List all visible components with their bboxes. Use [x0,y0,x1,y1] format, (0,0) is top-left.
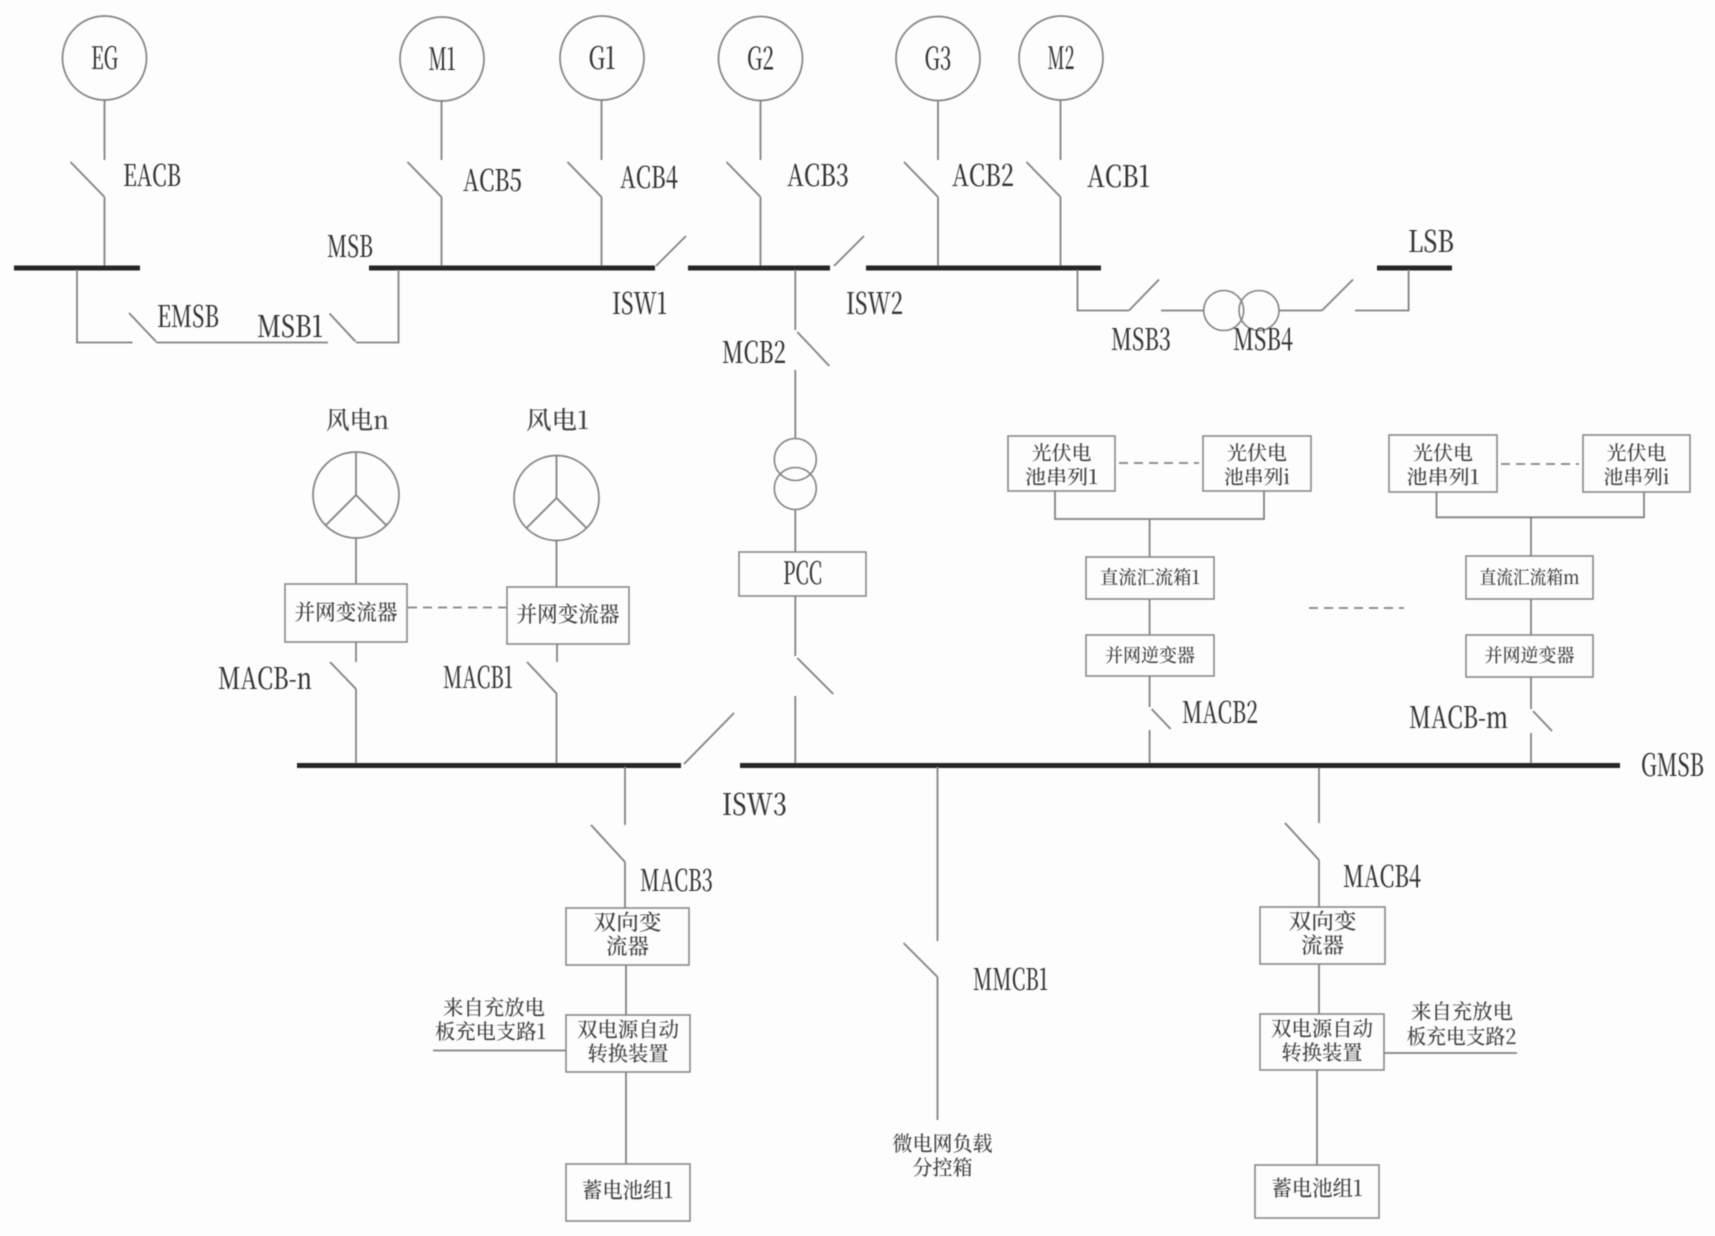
wire EG-bus drop and tie run [77,270,133,343]
label charge branch 2 line1 [1412,1001,1513,1021]
box PV string 1-i [1203,436,1311,491]
bus MSB segment 2 [688,266,830,271]
label PV string m-1 line1 [1414,443,1473,462]
breaker ACB2 blade [904,162,938,197]
box dual-supply ATS left [566,1015,690,1072]
label PV string 1-i line1 [1228,443,1287,462]
wire MACB2 to GMSB [1149,730,1151,764]
label MSB3 [1112,328,1170,351]
wire ACB2 upper [937,100,939,160]
generator EG label [92,46,118,70]
wire MSB3 to transformer [1161,310,1204,312]
breaker MCB1 blade [797,658,833,694]
label microgrid load line1 [893,1133,992,1153]
label MACB-n [219,667,311,690]
generator M2 label [1048,46,1074,69]
box PV string m-1 [1389,435,1497,492]
label microgrid load line2 [913,1157,972,1177]
label ISW1 [613,292,666,315]
wire MACB1 to GMSB [556,694,558,763]
label wind turbine 1 [527,408,588,431]
label MACB1 [444,666,512,689]
label PV string m-1 line2 [1407,467,1478,486]
bus GMSB left segment [297,763,681,768]
wire GMSB to MACB3 [624,767,626,825]
box bidirectional converter right [1260,907,1385,964]
wire GMSB to MACB4 [1318,768,1320,823]
label ACB2 [952,164,1013,187]
breaker MACB1 blade [527,662,557,694]
label charge branch 1 line2 [436,1021,546,1041]
label ACB3 [787,164,847,187]
wire inverter1 down [1149,676,1151,707]
label ISW3 [723,793,785,816]
wire ACB1 upper [1060,100,1062,160]
box PV string m-i [1583,435,1690,492]
label bidir converter left line2 [607,935,649,956]
breaker ACB5 blade [408,162,442,197]
wire PV group1 to combiner [1149,519,1151,557]
wire MACB-n to GMSB [355,689,357,763]
label ACB4 [620,166,677,189]
switch MSB1 blade [330,314,356,342]
breaker MMCB1 blade [904,943,938,977]
breaker ACB1 blade [1027,162,1061,197]
wire MCB2 from MSB [794,270,796,330]
generator G2 label [748,46,773,70]
wire ACB5 lower [441,197,443,268]
label PV string 1-1 line2 [1026,467,1097,486]
label GMSB [1642,753,1703,777]
wire MSB4 to LSB riser [1355,270,1409,311]
label MSB [328,235,372,258]
label MACB3 [641,869,712,892]
wire transformer to PCC box [794,510,796,553]
breaker ACB4 blade [568,162,602,197]
box DC combiner 1 [1086,557,1214,599]
switch ISW2 blade [834,236,864,266]
wire converter n down [355,642,357,662]
box PCC [739,552,866,596]
wire converter to ATS left [625,965,627,1015]
dashed link PV groups [1309,607,1404,609]
label ISW2 [847,292,902,315]
label wind turbine n [327,408,388,431]
breaker MACB3 blade [591,825,625,862]
wire charge branch 2 [1384,1052,1517,1054]
wire GMSB to MMCB1 [937,767,939,941]
wire charge branch 1 [433,1050,566,1052]
bus LSB busbar [1377,266,1452,271]
wire PV group m collector [1437,492,1645,517]
generator G1 label [590,46,615,70]
wire converter to ATS right [1318,964,1320,1014]
label MMCB1 [974,968,1047,991]
label battery bank right [1272,1177,1361,1197]
label MSB1 [258,315,322,338]
bus EG emergency busbar [14,266,140,271]
generator M2 circle [1019,16,1103,100]
wire ACB3 lower [760,197,762,268]
box grid inverter m [1466,635,1593,677]
wind turbine n rotor spokes [326,452,387,525]
bus MSB segment 3 [866,266,1101,271]
label bidir converter right line1 [1289,910,1356,931]
label PV string m-i line2 [1604,467,1669,486]
breaker MCB2 blade [797,332,829,366]
label MCB2 [723,341,785,364]
switch ISW1 blade [656,236,686,266]
bus GMSB right segment [740,763,1620,768]
label ACB5 [463,169,521,192]
box battery bank right [1255,1165,1379,1218]
wire ACB2 lower [937,197,939,268]
wind turbine 1 circle [514,456,599,541]
wire MACB-m to GMSB [1530,733,1532,764]
box dual-supply ATS right [1260,1014,1384,1070]
wire MACB3 to converter [624,862,626,908]
label DC combiner 1 [1101,568,1199,586]
label PV string m-i line1 [1607,443,1666,462]
label EMSB [158,305,218,328]
transformer T1 upper winding [774,439,816,481]
label PCC [784,561,821,585]
wire inverter m down [1530,677,1532,709]
label PV string 1-i line2 [1225,467,1290,486]
breaker EACB blade [71,162,105,197]
box grid converter n [285,584,407,642]
wire wind 1 to converter [556,541,558,588]
label ATS left line2 [588,1043,667,1063]
breaker MACB2 blade [1152,709,1171,729]
wire tie run to MSB riser [356,270,399,343]
wire ATS left to battery [625,1072,627,1164]
transformer T2 left winding [1204,291,1244,331]
label charge branch 1 line1 [444,997,545,1017]
wire PCC box down [794,596,796,656]
wire EACB lower [104,197,106,268]
generator M1 label [429,47,455,70]
wire PV group1 collector [1055,491,1264,519]
label grid inverter m [1485,646,1574,664]
label MACB4 [1344,865,1421,888]
label ACB1 [1087,165,1149,188]
box grid converter 1 [507,587,629,644]
wind turbine 1 rotor spokes [526,456,586,529]
box bidirectional converter left [566,908,689,965]
label DC combiner m [1480,568,1579,586]
label MACB2 [1183,701,1257,724]
label grid converter 1 [517,603,619,624]
breaker MACB4 blade [1285,823,1319,860]
generator G3 circle [896,17,980,101]
generator G3 label [926,46,951,70]
wire wind n to converter [355,538,357,584]
box PV string 1-1 [1008,436,1115,491]
generator G1 circle [560,16,644,100]
label ATS right line2 [1282,1042,1361,1062]
wire ACB5 upper [441,100,443,160]
label grid converter n [295,601,397,622]
wire MACB4 to converter [1318,860,1320,907]
wire ATS right to battery [1316,1070,1318,1165]
wire ACB4 lower [601,197,603,268]
switch MSB3 blade [1129,280,1159,311]
wire MCB2 to transformer [794,370,796,439]
label charge branch 2 line2 [1407,1026,1515,1046]
wire transformer to MSB4 [1279,310,1322,312]
wire ACB4 upper [601,100,603,160]
wire MSB seg3 drop [1078,270,1130,311]
label bidir converter left line1 [594,911,661,932]
label grid inverter 1 [1106,646,1195,664]
box battery bank left [566,1164,690,1221]
wire PCC column to GMSB [794,696,796,763]
generator G2 circle [719,17,803,101]
label EACB [124,164,180,187]
wire ACB1 lower [1060,197,1062,268]
dashed link wind converters [408,607,506,609]
wire combiner1 to inverter [1149,599,1151,635]
generator M1 circle [400,17,484,101]
label LSB [1409,230,1453,253]
breaker ACB3 blade [727,162,761,197]
transformer T2 right winding [1239,291,1279,331]
wind turbine n circle [313,452,399,538]
label MACB-m [1410,706,1507,729]
label ATS right line1 [1272,1018,1373,1038]
bus MSB segment 1 [369,266,655,271]
breaker MACB-n blade [330,662,356,689]
switch ISW3 blade [684,713,734,764]
wire ACB3 upper [760,100,762,160]
wire PV group m to combiner [1530,517,1532,556]
dashed link PV strings group m [1501,463,1579,465]
label ATS left line1 [578,1019,679,1039]
generator EG circle [63,16,147,100]
box grid inverter 1 [1086,635,1214,676]
label battery bank left [583,1179,672,1199]
label PV string 1-1 line1 [1032,443,1091,462]
wire converter 1 down [556,644,558,662]
transformer T1 lower winding [774,468,816,510]
dashed link PV strings group1 [1119,462,1199,464]
wire MMCB1 to load box [937,977,939,1120]
label bidir converter right line2 [1302,934,1344,955]
wire combiner m to inverter [1530,599,1532,635]
box DC combiner m [1466,556,1593,599]
switch MSB4 blade [1322,280,1353,311]
switch EMSB blade [129,313,156,342]
breaker MACB-m blade [1533,711,1552,731]
wire EACB upper [104,100,106,160]
wire tie middle run [156,342,328,344]
label MSB4 [1234,328,1293,351]
